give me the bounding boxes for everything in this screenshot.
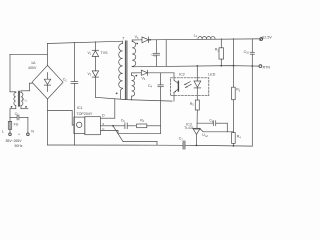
wire control loop bbox=[101, 126, 161, 134]
TVS diode V1 bbox=[92, 42, 98, 71]
svg-text:T: T bbox=[122, 36, 125, 40]
top output rail bbox=[149, 38, 260, 41]
resistor R2 bleeder bbox=[219, 39, 224, 66]
capacitor C10 bbox=[250, 39, 254, 66]
terminal L bbox=[9, 121, 12, 135]
wire source pin bbox=[101, 125, 114, 127]
terminal RTN bbox=[259, 65, 262, 68]
svg-text:TL431: TL431 bbox=[184, 126, 194, 130]
diode V2 bbox=[92, 71, 98, 97]
svg-text:L: L bbox=[2, 129, 4, 133]
svg-text:TOP204Y: TOP204Y bbox=[77, 112, 93, 116]
junction dots bbox=[196, 65, 254, 147]
terminal +12.5V bbox=[260, 37, 263, 41]
svg-text:C7: C7 bbox=[179, 137, 184, 142]
wire drain node sloped line bbox=[95, 97, 172, 118]
svg-text:L2: L2 bbox=[194, 33, 198, 38]
svg-text:IC1: IC1 bbox=[77, 106, 83, 110]
bias diode V4 bbox=[132, 70, 174, 75]
wire fuse to AC top bbox=[9, 109, 11, 130]
svg-text:RTN: RTN bbox=[263, 65, 271, 69]
fuse FU bbox=[8, 121, 11, 129]
svg-text:12.5V: 12.5V bbox=[262, 36, 272, 40]
svg-text:R5: R5 bbox=[190, 102, 195, 107]
svg-text:50Hz: 50Hz bbox=[15, 144, 23, 148]
transformer T primary winding bbox=[119, 41, 123, 99]
wire RTN to bottom rail right bbox=[251, 66, 253, 146]
bias polarity dot bbox=[135, 75, 137, 77]
bottom rail right bbox=[185, 144, 252, 147]
wire bridge- branch to tab bbox=[48, 111, 74, 125]
svg-text:1A: 1A bbox=[31, 61, 36, 65]
choke polarity dots bbox=[11, 106, 27, 108]
wire source to ground diagonal bbox=[113, 126, 157, 145]
vertical wire C3b bbox=[165, 40, 167, 66]
svg-text:u: u bbox=[18, 132, 20, 136]
svg-text:C1: C1 bbox=[15, 112, 20, 117]
resistor R1 bbox=[137, 124, 161, 128]
capacitor C4 bbox=[158, 73, 164, 126]
choke right winding bbox=[21, 92, 23, 105]
terminal N bbox=[27, 117, 30, 135]
TL431 IC3 bbox=[193, 128, 234, 145]
svg-text:C4: C4 bbox=[148, 84, 153, 89]
svg-text:FU: FU bbox=[14, 123, 19, 127]
compensation capacitor C8 bbox=[197, 121, 227, 132]
choke wiring left bbox=[10, 54, 16, 108]
svg-text:LED: LED bbox=[208, 73, 215, 77]
svg-text:400V: 400V bbox=[28, 66, 37, 70]
svg-text:V2: V2 bbox=[88, 72, 92, 77]
opto phototransistor bbox=[174, 73, 178, 101]
wire bridge+ up to rail bbox=[46, 44, 48, 66]
optocoupler IC2 box bbox=[171, 78, 209, 96]
wire drain pin bbox=[101, 117, 115, 119]
wire bridge- down bbox=[47, 99, 49, 145]
secondary polarity dot bbox=[136, 43, 138, 45]
svg-text:R1: R1 bbox=[140, 119, 145, 124]
svg-text:IC2: IC2 bbox=[179, 72, 185, 76]
svg-text:C8: C8 bbox=[209, 119, 214, 124]
wire B+ rail bbox=[47, 41, 122, 43]
svg-text:L1: L1 bbox=[23, 98, 27, 103]
RTN line bbox=[132, 66, 259, 67]
bottom rail left bbox=[48, 144, 184, 146]
diode V3 bbox=[132, 37, 148, 43]
svg-text:C10: C10 bbox=[244, 50, 250, 55]
transformer bias winding bbox=[132, 73, 135, 100]
wire AC top bbox=[10, 53, 47, 55]
svg-text:D: D bbox=[102, 113, 105, 117]
svg-text:S: S bbox=[102, 122, 104, 126]
svg-text:85V~265V: 85V~265V bbox=[6, 139, 23, 143]
svg-text:Uref: Uref bbox=[202, 133, 208, 138]
svg-text:C6: C6 bbox=[121, 119, 126, 124]
IC1 TOP204Y package bbox=[74, 117, 101, 135]
svg-text:R4: R4 bbox=[237, 135, 242, 140]
choke core bbox=[18, 91, 19, 106]
capacitor C6 bbox=[113, 123, 136, 129]
opto light arrows bbox=[184, 82, 191, 88]
node S junction bbox=[112, 125, 114, 127]
capacitor C1 bbox=[10, 115, 28, 120]
inductor L2 bbox=[198, 36, 215, 39]
svg-text:V4: V4 bbox=[142, 76, 146, 81]
opto LED bbox=[194, 66, 201, 100]
node after V3 bbox=[149, 39, 151, 41]
svg-text:C2: C2 bbox=[63, 78, 68, 83]
resistor R5 bbox=[195, 100, 199, 128]
capacitor C3 bbox=[154, 40, 160, 66]
common-mode choke L1 bbox=[14, 92, 16, 105]
svg-text:TVS: TVS bbox=[101, 51, 109, 55]
capacitor C2 bbox=[71, 42, 78, 145]
divider string R3 R4 bbox=[232, 39, 236, 146]
transformer core bbox=[125, 41, 127, 99]
primary polarity dot bbox=[116, 93, 118, 95]
svg-text:V3: V3 bbox=[135, 35, 139, 40]
transformer secondary winding top bbox=[132, 40, 136, 67]
choke wiring right bbox=[21, 83, 32, 109]
svg-text:R3: R3 bbox=[236, 88, 241, 93]
bridge rectifier bbox=[32, 65, 63, 99]
capacitor C7 bbox=[183, 141, 185, 149]
svg-text:V1: V1 bbox=[88, 51, 92, 56]
svg-text:C3: C3 bbox=[152, 53, 157, 58]
svg-text:N: N bbox=[31, 129, 34, 133]
